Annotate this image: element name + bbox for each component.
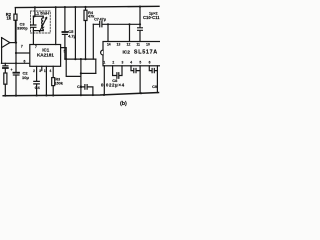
svg-text:4: 4: [50, 69, 52, 73]
node C10 wire junction: [139, 23, 141, 25]
node pin5 bus junction: [65, 58, 67, 60]
node drop junctions: [80, 58, 82, 60]
node C5 rail junction: [64, 6, 66, 8]
svg-text:L1 5mH: L1 5mH: [34, 11, 49, 16]
svg-text:1k: 1k: [6, 16, 11, 21]
wire bottom ground rail: [3, 93, 158, 96]
capacitor C8 pins2-3: [113, 66, 122, 79]
svg-text:4: 4: [130, 60, 132, 64]
svg-text:10: 10: [146, 43, 150, 47]
svg-text:0.022µ×4: 0.022µ×4: [101, 83, 125, 88]
capacitor C9 pins6-7: [149, 66, 157, 93]
wire mid bus y59: [65, 58, 96, 60]
label C2 10u: [10, 68, 29, 80]
svg-text:6: 6: [149, 60, 151, 64]
svg-text:IC2: IC2: [122, 50, 130, 56]
wire top supply rail: [15, 6, 159, 7]
label L1 5mH: [34, 11, 49, 16]
label C3 3300p: [17, 22, 28, 31]
wire ground drop x81: [80, 59, 82, 95]
wire right link vertical: [95, 59, 97, 73]
svg-text:C9: C9: [152, 84, 158, 89]
node pin6 junction: [15, 62, 17, 64]
wire tank riser from rail: [34, 7, 36, 16]
label C6: [77, 84, 83, 89]
svg-text:6: 6: [23, 59, 25, 63]
svg-text:3: 3: [39, 69, 41, 73]
IC2 SL517A box: [103, 42, 161, 66]
label 1u x2 / C10 C11: [143, 11, 160, 19]
node tank rail junction: [34, 6, 36, 8]
svg-text:10µ: 10µ: [22, 75, 29, 80]
node Vcc riser junction: [55, 6, 57, 8]
wire IC1 pin7: [16, 52, 30, 54]
node input junction: [15, 42, 17, 44]
svg-text:1: 1: [44, 69, 46, 73]
node C10 rail junction: [139, 6, 141, 8]
IC2 bottom pin labels: [103, 60, 150, 64]
wire IC1 pin5 stub: [61, 48, 67, 60]
svg-text:2: 2: [33, 69, 35, 73]
svg-text:12: 12: [127, 43, 131, 47]
wire L drop from pin5 node: [66, 59, 81, 76]
node pin7 junction: [15, 52, 17, 54]
wire mid bus y73: [81, 72, 96, 74]
capacitor C3 (tank): [31, 16, 36, 44]
svg-text:KA2181: KA2181: [37, 53, 54, 58]
svg-text:14: 14: [107, 43, 111, 47]
resistor R4: [84, 7, 87, 59]
wire IC2 pin14 riser: [107, 24, 109, 41]
svg-text:5: 5: [139, 60, 141, 64]
resistor R3: [52, 78, 55, 96]
svg-text:SL517A: SL517A: [134, 50, 158, 56]
label C8 0.022ux4: [101, 78, 125, 88]
capacitor C7: [93, 21, 140, 59]
label IC2 SL517A: [122, 50, 157, 56]
label C7 47u: [94, 18, 106, 22]
svg-text:C10·C11: C10·C11: [143, 15, 160, 20]
label C5 4.7u: [68, 29, 77, 39]
capacitor C1: [3, 63, 8, 73]
wire IC2 pin1 ground: [103, 66, 105, 95]
label R4 47k: [88, 11, 95, 19]
pin 5 label: [64, 49, 66, 53]
node mid riser junctions: [74, 6, 76, 8]
transducer B input: [2, 38, 10, 64]
svg-text:3: 3: [121, 60, 123, 64]
IC2 notch: [101, 50, 103, 55]
svg-text:47µ: 47µ: [99, 18, 105, 22]
op-amp IC1 KA2181 box: [30, 45, 61, 67]
wire IC2 pin12 riser: [129, 24, 131, 41]
capacitor C10: [138, 7, 143, 42]
label R2 1k: [6, 12, 12, 21]
inductor L1: [40, 16, 47, 31]
label C9: [152, 84, 158, 89]
wire IC1 Vcc riser: [55, 7, 57, 44]
label R3 150k: [54, 77, 63, 85]
wire IC1 pin6 / C1 branch: [1, 62, 29, 64]
ground rail junction nodes: [4, 95, 6, 97]
svg-text:2: 2: [112, 60, 114, 64]
svg-text:C7: C7: [94, 18, 99, 22]
wire tank top: [33, 15, 43, 17]
capacitor C2: [13, 73, 19, 96]
capacitor C4: [34, 81, 40, 95]
node pin12 junction: [128, 23, 130, 25]
IC1 bottom pin stubs: [37, 66, 54, 95]
node pin14 junction: [107, 23, 109, 25]
IC2 top pin labels: [107, 43, 150, 47]
node tank top junction: [34, 15, 36, 17]
svg-text:11: 11: [136, 43, 140, 47]
wire input node to left column: [10, 42, 16, 44]
pin 7 top label: [35, 45, 37, 49]
wire tank bottom: [33, 30, 43, 32]
shield dashed box around L1 tank: [30, 11, 50, 33]
node R4 rail junction: [84, 6, 86, 8]
pin 6 label: [23, 59, 25, 63]
caption (b): [120, 101, 127, 107]
svg-text:(b): (b): [120, 101, 127, 107]
svg-text:150k: 150k: [54, 82, 63, 86]
svg-text:C4: C4: [35, 85, 41, 90]
capacitor C5: [62, 7, 67, 59]
svg-text:13: 13: [117, 43, 121, 47]
svg-text:C6: C6: [77, 84, 83, 89]
svg-text:7: 7: [21, 45, 23, 49]
svg-text:3300p: 3300p: [17, 26, 28, 30]
pin 7 label: [21, 45, 23, 49]
capacitor C6: [81, 85, 93, 95]
resistor R1: [4, 73, 7, 96]
svg-text:1: 1: [103, 60, 105, 64]
svg-text:+: +: [10, 68, 12, 72]
svg-text:7: 7: [35, 45, 37, 49]
wire mid riser: [74, 7, 76, 59]
pin labels 2 3 1 4: [33, 69, 51, 73]
capacitor pins4-5: [131, 66, 140, 93]
resistor R2: [14, 8, 17, 43]
wire left column vertical: [15, 20, 17, 72]
label C4: [35, 85, 41, 90]
